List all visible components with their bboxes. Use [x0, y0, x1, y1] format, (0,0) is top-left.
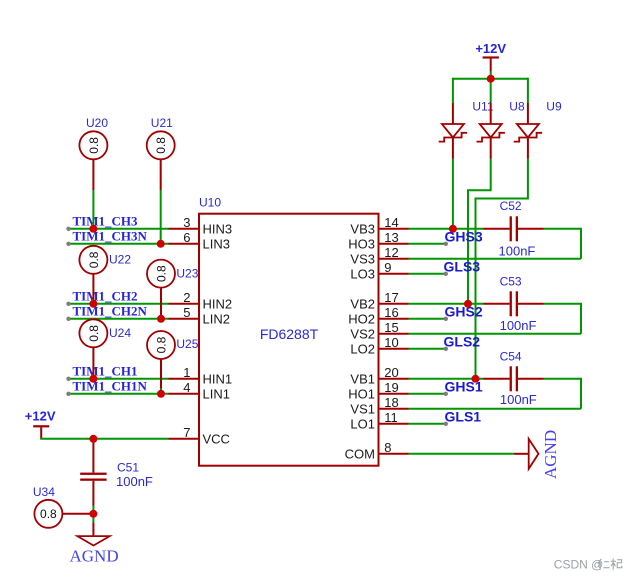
test point U34	[33, 485, 94, 528]
wire net TIM1_CH3	[69, 228, 169, 230]
open end GHS1	[444, 392, 448, 396]
pin 8 COM	[345, 440, 409, 461]
svg-text:HIN2: HIN2	[203, 297, 233, 312]
svg-text:VS3: VS3	[350, 252, 375, 267]
svg-text:VS1: VS1	[350, 402, 375, 417]
open end TIM1_CH3	[66, 227, 70, 231]
svg-text:16: 16	[384, 305, 398, 320]
svg-text:LIN3: LIN3	[203, 237, 230, 252]
pin 13 HO3	[348, 230, 408, 251]
pin 4 LIN1	[169, 380, 230, 401]
svg-text:2: 2	[183, 290, 190, 305]
test point U22	[79, 246, 131, 302]
pin 7 VCC	[169, 425, 230, 446]
svg-text:12: 12	[384, 245, 398, 260]
svg-text:+12V: +12V	[475, 41, 506, 56]
svg-text:C54: C54	[500, 349, 522, 363]
svg-text:U8: U8	[509, 100, 525, 114]
wire C51 to AGND node	[92, 506, 94, 523]
watermark CSDN	[554, 557, 622, 571]
svg-text:LO1: LO1	[350, 417, 375, 432]
svg-text:FD6288T: FD6288T	[260, 326, 319, 342]
wire rail to diode U8 anode	[490, 79, 492, 103]
junction VB3 / U11	[449, 225, 457, 233]
svg-text:TIM1_CH3N: TIM1_CH3N	[73, 229, 148, 244]
svg-text:17: 17	[384, 290, 398, 305]
wire U23 to TIM1_CH2N	[160, 317, 162, 319]
svg-text:AGND: AGND	[541, 430, 560, 479]
svg-text:GHS2: GHS2	[445, 303, 483, 319]
svg-text:HO3: HO3	[348, 237, 375, 252]
wire C52 right loop to VS3	[544, 229, 582, 259]
open end GHS2	[444, 317, 448, 321]
capacitor C54	[484, 349, 544, 406]
pin 2 HIN2	[169, 290, 233, 311]
svg-text:5: 5	[183, 305, 190, 320]
diode U11 (schottky)	[439, 100, 494, 159]
svg-text:LO2: LO2	[350, 342, 375, 357]
wire rail to diode U11 anode	[452, 78, 454, 103]
svg-text:6: 6	[183, 230, 190, 245]
svg-text:C51: C51	[117, 460, 139, 474]
junction TIM1_CH3 / U20	[89, 225, 97, 233]
wire U22 to TIM1_CH2	[92, 302, 94, 304]
junction VCC / C51	[89, 435, 97, 443]
wire net TIM1_CH1	[69, 378, 169, 380]
svg-text:VB3: VB3	[350, 222, 375, 237]
wire net TIM1_CH2N	[69, 318, 169, 320]
svg-text:U24: U24	[109, 326, 131, 340]
svg-text:AGND: AGND	[70, 547, 119, 566]
junction TIM1_CH1N / U25	[157, 390, 165, 398]
wire U24 to TIM1_CH1	[92, 377, 94, 379]
wire LO3 stub (net GLS3)	[409, 273, 446, 275]
svg-text:HIN1: HIN1	[203, 372, 233, 387]
junction TIM1_CH1 / U24	[89, 375, 97, 383]
pin 10 LO2	[350, 335, 408, 356]
svg-text:19: 19	[384, 380, 398, 395]
wire U20 to TIM1_CH3	[92, 190, 94, 229]
pin 20 VB1	[350, 365, 408, 386]
svg-text:18: 18	[384, 395, 398, 410]
svg-text:TIM1_CH1N: TIM1_CH1N	[73, 379, 148, 394]
svg-text:100nF: 100nF	[500, 318, 537, 333]
svg-text:TIM1_CH3: TIM1_CH3	[73, 214, 139, 229]
open end TIM1_CH3N	[66, 242, 70, 246]
diode U8 (schottky)	[477, 100, 525, 159]
svg-text:4: 4	[183, 380, 190, 395]
svg-text:11: 11	[384, 410, 398, 425]
wire HO3 stub (net GHS3)	[409, 243, 446, 245]
svg-text:0.8: 0.8	[87, 325, 101, 342]
svg-text:14: 14	[384, 215, 398, 230]
svg-text:1: 1	[183, 365, 190, 380]
pin 1 HIN1	[169, 365, 233, 386]
wire rail to diode U9 anode	[527, 78, 529, 103]
IC U10 FD6288T body	[199, 196, 379, 466]
svg-text:100nF: 100nF	[500, 392, 537, 407]
svg-text:GLS1: GLS1	[445, 408, 482, 424]
open end TIM1_CH1	[66, 377, 70, 381]
svg-text:U21: U21	[151, 116, 173, 130]
ground AGND (right, rotated)	[514, 430, 560, 479]
wire U9 cathode to VB1	[476, 159, 528, 379]
svg-text:LIN1: LIN1	[203, 387, 230, 402]
svg-text:VCC: VCC	[203, 432, 230, 447]
svg-text:U9: U9	[546, 100, 562, 114]
svg-text:HO2: HO2	[348, 312, 375, 327]
junction VB1 / U9	[472, 375, 480, 383]
svg-text:100nF: 100nF	[116, 474, 153, 489]
wire net TIM1_CH2	[69, 303, 169, 305]
test point U25	[147, 331, 199, 388]
svg-text:13: 13	[384, 230, 398, 245]
pin 18 VS1	[350, 395, 408, 416]
junction TIM1_CH2N / U23	[157, 315, 165, 323]
pin 9 LO3	[350, 260, 408, 281]
junction TIM1_CH2 / U22	[89, 300, 97, 308]
open end GHS3	[444, 242, 448, 246]
wire VS1 to loop	[409, 408, 582, 410]
svg-text:9: 9	[384, 260, 391, 275]
svg-text:TIM1_CH2: TIM1_CH2	[73, 289, 138, 304]
open end GLS2	[444, 347, 448, 351]
capacitor C51	[80, 439, 153, 506]
wire +12V rail	[453, 78, 528, 80]
svg-text:U20: U20	[86, 116, 108, 130]
wire HO1 stub (net GHS1)	[409, 393, 446, 395]
junction VB2 / U8	[464, 300, 472, 308]
wire HO2 stub (net GHS2)	[409, 318, 446, 320]
wire net TIM1_CH1N	[69, 393, 169, 395]
svg-text:TIM1_CH1: TIM1_CH1	[73, 364, 138, 379]
svg-text:TIM1_CH2N: TIM1_CH2N	[73, 304, 148, 319]
svg-text:U25: U25	[176, 337, 198, 351]
junction C51 / U34 / AGND	[89, 510, 97, 518]
wire net TIM1_CH3N	[69, 243, 169, 245]
svg-text:0.8: 0.8	[87, 137, 101, 154]
svg-text:0.8: 0.8	[154, 265, 168, 282]
wire VB3 to C52	[409, 228, 484, 230]
svg-text:HIN3: HIN3	[203, 222, 233, 237]
svg-text:HO1: HO1	[348, 387, 375, 402]
junction +12V rail	[487, 75, 495, 83]
power port +12V (left)	[25, 409, 56, 439]
pin 12 VS3	[350, 245, 408, 266]
svg-text:GLS2: GLS2	[444, 333, 481, 349]
pin 5 LIN2	[169, 305, 230, 326]
open end TIM1_CH1N	[66, 392, 70, 396]
pin 14 VB3	[350, 215, 408, 236]
open end GLS3	[444, 272, 448, 276]
svg-text:15: 15	[384, 320, 398, 335]
svg-text:0.8: 0.8	[154, 137, 168, 154]
test point U24	[79, 319, 131, 376]
svg-text:CSDN @: CSDN @	[554, 557, 604, 571]
test point U23	[147, 260, 199, 317]
pin 11 LO1	[350, 410, 408, 431]
pin 15 VS2	[350, 320, 408, 341]
wire U25 to TIM1_CH1N	[160, 388, 162, 394]
wire U11 cathode to VB3	[452, 159, 454, 229]
wire +12V stem	[490, 71, 492, 79]
test point U21	[147, 116, 175, 190]
wire U21 to TIM1_CH3N	[160, 190, 162, 244]
svg-text:U34: U34	[33, 485, 55, 499]
capacitor C52	[484, 199, 544, 258]
svg-text:GLS3: GLS3	[444, 258, 481, 274]
svg-text:+12V: +12V	[25, 409, 56, 424]
ground AGND (left)	[70, 523, 119, 566]
diode U9 (schottky)	[514, 100, 562, 159]
pin 3 HIN3	[169, 215, 233, 236]
pin 17 VB2	[350, 290, 408, 311]
open end TIM1_CH2	[66, 302, 70, 306]
svg-text:100nF: 100nF	[499, 244, 536, 259]
wire LO2 stub (net GLS2)	[409, 348, 446, 350]
svg-text:8: 8	[384, 440, 391, 455]
svg-text:U23: U23	[176, 267, 198, 281]
pin 19 HO1	[348, 380, 408, 401]
svg-text:COM: COM	[345, 447, 375, 462]
open end TIM1_CH2N	[66, 317, 70, 321]
svg-text:0.8: 0.8	[87, 251, 101, 268]
svg-text:VS2: VS2	[350, 327, 375, 342]
svg-text:U10: U10	[199, 196, 221, 210]
wire VB2 to C53	[409, 303, 484, 305]
svg-text:20: 20	[384, 365, 398, 380]
svg-text:LIN2: LIN2	[203, 312, 230, 327]
svg-text:7: 7	[183, 425, 190, 440]
svg-text:3: 3	[183, 215, 190, 230]
wire C53 right loop to VS2	[544, 304, 582, 334]
pin 6 LIN3	[169, 230, 230, 251]
svg-text:VB1: VB1	[350, 372, 375, 387]
power port +12V (top)	[475, 41, 506, 71]
svg-text:0.8: 0.8	[154, 336, 168, 353]
svg-text:10: 10	[384, 335, 398, 350]
wire U8 cathode to VB2	[468, 159, 491, 304]
svg-text:LO3: LO3	[350, 267, 375, 282]
svg-text:U22: U22	[109, 253, 131, 267]
capacitor C53	[484, 274, 544, 333]
pin 16 HO2	[348, 305, 408, 326]
wire VS3 to loop	[409, 258, 582, 260]
wire C54 right loop to VS1	[544, 379, 582, 409]
wire +12V to VCC pin	[40, 438, 168, 440]
svg-text:0.8: 0.8	[40, 507, 57, 521]
open end GLS1	[444, 422, 448, 426]
svg-text:C52: C52	[500, 199, 522, 213]
wire LO1 stub (net GLS1)	[409, 423, 446, 425]
wire VS2 to loop	[409, 333, 582, 335]
junction TIM1_CH3N / U21	[157, 240, 165, 248]
wire VB1 to C54	[409, 378, 484, 380]
wire COM to AGND	[409, 453, 514, 455]
test point U20	[79, 116, 108, 190]
svg-text:C53: C53	[500, 274, 522, 288]
svg-text:VB2: VB2	[350, 297, 375, 312]
